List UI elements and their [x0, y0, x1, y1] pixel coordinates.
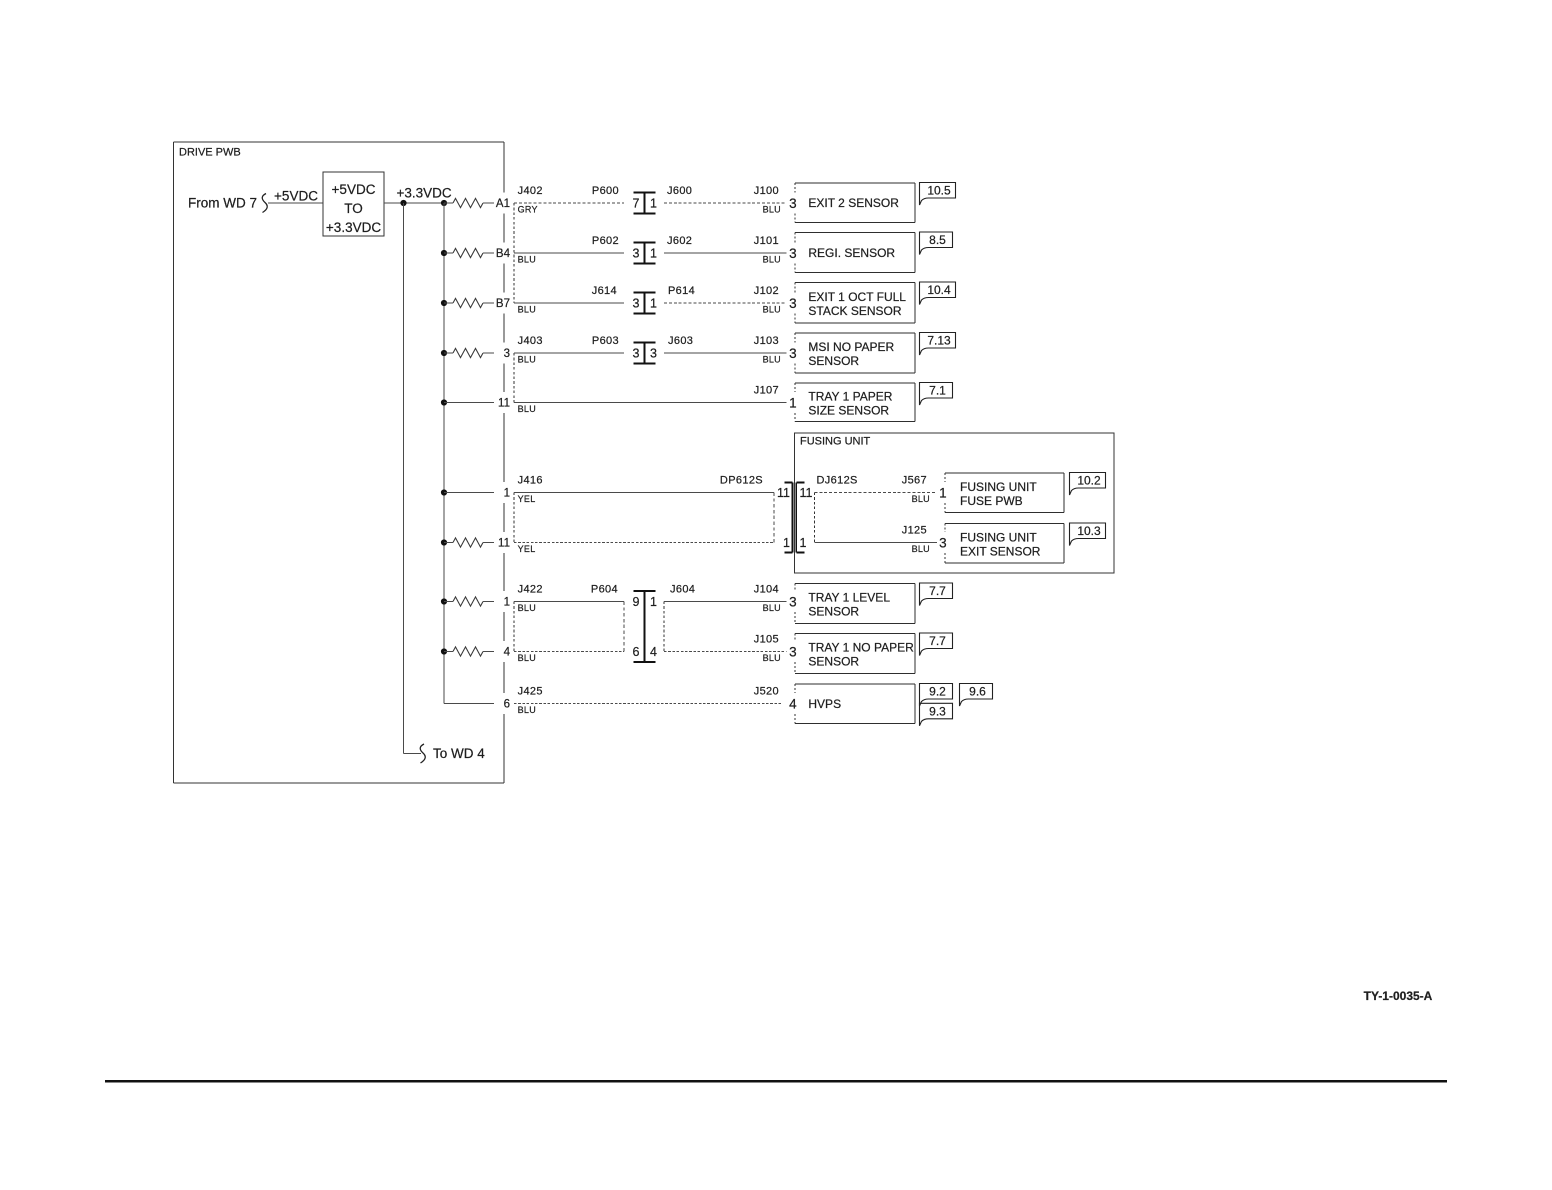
wire color BLU row 4 — [518, 355, 536, 365]
wire color BLU row 9 — [763, 653, 781, 663]
connector bracket J402 — [513, 203, 515, 303]
converter U1 +5VDC TO +3.3VDC — [323, 172, 384, 236]
wire J603 to J103 — [664, 352, 787, 354]
flag 7.1 — [920, 383, 953, 406]
svg-text:4: 4 — [650, 645, 657, 659]
connector bracket J416 — [513, 493, 515, 543]
label P614 — [668, 285, 695, 297]
svg-text:3: 3 — [633, 347, 640, 361]
connector bracket J422 — [513, 602, 515, 652]
label J603 — [668, 335, 693, 347]
label J422 — [518, 584, 543, 596]
label J403 — [518, 335, 543, 347]
svg-text:J402: J402 — [518, 185, 543, 197]
wire B4 to P602 — [514, 252, 624, 254]
net label +3.3VDC — [397, 186, 452, 201]
label P602 — [592, 235, 619, 247]
svg-text:11: 11 — [777, 486, 790, 500]
svg-text:B4: B4 — [496, 248, 511, 260]
svg-text:BLU: BLU — [763, 355, 781, 365]
svg-text:J600: J600 — [667, 185, 692, 197]
svg-text:7.7: 7.7 — [929, 584, 946, 598]
svg-text:7.13: 7.13 — [927, 334, 951, 348]
+3.3VDC bus vertical — [443, 203, 445, 704]
wire color BLU row 9 — [518, 653, 536, 663]
svg-text:FUSING UNIT: FUSING UNIT — [960, 480, 1037, 494]
svg-text:SENSOR: SENSOR — [808, 354, 859, 368]
label J107 — [754, 385, 779, 397]
wire color BLU row 1 — [763, 205, 781, 215]
wire color BLU row 8 — [763, 603, 781, 613]
flag 10.2 — [1070, 473, 1106, 496]
connector P/J mate row 3 — [633, 293, 657, 314]
svg-text:J425: J425 — [518, 686, 543, 698]
svg-text:3: 3 — [633, 247, 640, 261]
pin 1 row 6 — [504, 488, 510, 500]
component MSI NO PAPER SENSOR — [789, 333, 915, 373]
resistor row 2 — [444, 248, 494, 257]
svg-text:SENSOR: SENSOR — [808, 655, 859, 669]
label J105 — [754, 634, 779, 646]
resistor row 4 — [444, 348, 494, 357]
svg-text:YEL: YEL — [518, 544, 536, 554]
svg-text:BLU: BLU — [518, 705, 536, 715]
FUSING UNIT enclosure — [795, 433, 1115, 573]
label DP612S — [720, 475, 763, 487]
svg-text:FUSE PWB: FUSE PWB — [960, 494, 1023, 508]
svg-text:4: 4 — [504, 647, 511, 659]
resistor row 7 — [444, 538, 494, 547]
label J600 — [667, 185, 692, 197]
svg-text:EXIT 1 OCT FULL: EXIT 1 OCT FULL — [808, 290, 906, 304]
svg-text:BLU: BLU — [763, 255, 781, 265]
wire color BLU row 5 — [518, 404, 536, 414]
resistor row 8 — [444, 597, 494, 606]
svg-text:3: 3 — [789, 296, 797, 311]
pin 1 DJ612S — [800, 536, 807, 550]
svg-text:10.2: 10.2 — [1077, 474, 1101, 488]
svg-text:J100: J100 — [754, 185, 779, 197]
footer rule — [105, 1080, 1447, 1082]
svg-text:J103: J103 — [754, 335, 779, 347]
svg-text:1: 1 — [783, 536, 790, 550]
label FUSING UNIT — [800, 436, 871, 448]
component HVPS — [789, 684, 915, 724]
svg-text:+5VDC: +5VDC — [332, 182, 376, 197]
pin A1 row 1 — [496, 198, 510, 210]
wire J402-A1 to P600 (GRY, dashed) — [514, 202, 624, 204]
label P604 — [591, 584, 618, 596]
svg-text:1: 1 — [650, 247, 657, 261]
connector P/J mate row 2 — [633, 243, 657, 264]
node To WD 4 — [420, 744, 485, 763]
svg-text:SENSOR: SENSOR — [808, 605, 859, 619]
svg-text:+5VDC: +5VDC — [274, 189, 318, 204]
connector DP612S/DJ612S mate — [784, 483, 804, 553]
svg-text:BLU: BLU — [518, 603, 536, 613]
connector bracket J403 — [513, 353, 515, 403]
junction bus row 9 — [441, 648, 447, 654]
net label +5VDC — [274, 189, 318, 204]
svg-text:BLU: BLU — [912, 494, 930, 504]
label J614 — [592, 285, 617, 297]
svg-text:9.3: 9.3 — [929, 704, 946, 718]
svg-text:3: 3 — [633, 297, 640, 311]
flag 9.2 — [920, 684, 953, 707]
label J103 — [754, 335, 779, 347]
svg-text:YEL: YEL — [518, 494, 536, 504]
label J520 — [754, 686, 779, 698]
svg-text:8.5: 8.5 — [929, 233, 946, 247]
wire color BLU row 2 — [518, 255, 536, 265]
wire color GRY row 1 — [518, 205, 538, 215]
svg-text:3: 3 — [789, 346, 797, 361]
component FUSING UNIT FUSE PWB — [939, 473, 1064, 513]
pin 11 row 7 — [498, 538, 510, 550]
junction bus row 3 — [441, 300, 447, 306]
label J425 — [518, 686, 543, 698]
svg-text:J403: J403 — [518, 335, 543, 347]
svg-text:STACK SENSOR: STACK SENSOR — [808, 304, 901, 318]
svg-text:11: 11 — [800, 486, 813, 500]
svg-text:A1: A1 — [496, 198, 510, 210]
svg-text:BLU: BLU — [518, 305, 536, 315]
svg-text:To WD 4: To WD 4 — [433, 746, 485, 761]
wire color YEL row 6 — [518, 494, 536, 504]
label J104 — [754, 584, 779, 596]
svg-text:DP612S: DP612S — [720, 475, 763, 487]
flag 9.3 — [920, 703, 953, 726]
svg-text:P604: P604 — [591, 584, 618, 596]
svg-text:BLU: BLU — [763, 653, 781, 663]
DRIVE PWB board outline — [174, 142, 505, 783]
svg-text:P603: P603 — [592, 335, 619, 347]
svg-text:9.6: 9.6 — [969, 685, 986, 699]
component TRAY 1 LEVEL SENSOR — [789, 584, 915, 624]
svg-text:BLU: BLU — [763, 205, 781, 215]
component EXIT 1 OCT FULL STACK SENSOR — [789, 283, 915, 324]
wire converter output to bus — [384, 202, 453, 204]
svg-text:7: 7 — [633, 197, 640, 211]
label J567 — [902, 475, 927, 487]
svg-text:TRAY 1 LEVEL: TRAY 1 LEVEL — [808, 591, 890, 605]
svg-text:11: 11 — [498, 538, 510, 550]
drawing number TY-1-0035-A — [1364, 989, 1433, 1003]
flag 10.4 — [920, 282, 956, 305]
flag 8.5 — [920, 232, 953, 255]
pin 1 DP612S — [783, 536, 790, 550]
svg-text:REGI. SENSOR: REGI. SENSOR — [808, 246, 895, 260]
pin B7 row 3 — [496, 298, 510, 310]
svg-text:DRIVE PWB: DRIVE PWB — [179, 147, 241, 159]
svg-text:P614: P614 — [668, 285, 695, 297]
svg-text:J101: J101 — [754, 235, 779, 247]
component REGI. SENSOR — [789, 233, 915, 273]
label DRIVE PWB — [179, 147, 241, 159]
svg-text:3: 3 — [789, 594, 797, 609]
svg-text:1: 1 — [504, 597, 510, 609]
wire +5VDC input — [268, 202, 323, 204]
pin 11 DJ612S — [800, 486, 813, 500]
wire color YEL row 7 — [518, 544, 536, 554]
svg-text:1: 1 — [650, 197, 657, 211]
wire J604-1 to J104 — [664, 601, 787, 603]
svg-text:J602: J602 — [667, 235, 692, 247]
svg-text:P600: P600 — [592, 185, 619, 197]
wire DJ612S-11 to J567 (dashed) — [814, 492, 937, 494]
svg-text:+3.3VDC: +3.3VDC — [397, 186, 452, 201]
label J102 — [754, 285, 779, 297]
svg-text:EXIT SENSOR: EXIT SENSOR — [960, 544, 1041, 558]
wire color BLU row 2 — [763, 255, 781, 265]
svg-text:BLU: BLU — [763, 603, 781, 613]
label J604 — [670, 584, 695, 596]
svg-text:10.4: 10.4 — [927, 283, 951, 297]
flag 7.7 — [920, 633, 953, 656]
svg-text:11: 11 — [498, 398, 510, 410]
flag 10.5 — [920, 183, 956, 206]
svg-text:7.7: 7.7 — [929, 634, 946, 648]
label J402 — [518, 185, 543, 197]
label P600 — [592, 185, 619, 197]
svg-text:P602: P602 — [592, 235, 619, 247]
svg-text:TRAY 1 PAPER: TRAY 1 PAPER — [808, 389, 892, 403]
wire bus elbow to pin 6 — [444, 703, 494, 705]
svg-text:6: 6 — [504, 699, 510, 711]
svg-text:1: 1 — [650, 297, 657, 311]
wire J425-6 to J520 (dashed) — [514, 703, 783, 705]
svg-text:BLU: BLU — [518, 653, 536, 663]
flag 7.13 — [920, 333, 956, 356]
component EXIT 2 SENSOR — [789, 183, 915, 223]
label J416 — [518, 475, 543, 487]
label J101 — [754, 235, 779, 247]
svg-text:3: 3 — [650, 347, 657, 361]
svg-text:3: 3 — [504, 348, 510, 360]
label P603 — [592, 335, 619, 347]
wire bus feed row 5 — [444, 402, 494, 404]
connector P/J mate row 4 — [633, 343, 657, 364]
wire J403-3 to P603 — [514, 352, 624, 354]
svg-text:J105: J105 — [754, 634, 779, 646]
wire J416-1 to DP612S-11 — [514, 492, 774, 494]
flag 10.3 — [1070, 523, 1106, 546]
svg-text:J107: J107 — [754, 385, 779, 397]
svg-text:EXIT 2 SENSOR: EXIT 2 SENSOR — [808, 196, 899, 210]
svg-text:10.5: 10.5 — [927, 184, 951, 198]
svg-text:MSI NO PAPER: MSI NO PAPER — [808, 340, 894, 354]
wire color BLU row 4 — [763, 355, 781, 365]
svg-text:3: 3 — [789, 196, 797, 211]
svg-text:TRAY 1 NO PAPER: TRAY 1 NO PAPER — [808, 641, 914, 655]
svg-text:TY-1-0035-A: TY-1-0035-A — [1364, 989, 1433, 1003]
pin B4 row 2 — [496, 248, 511, 260]
svg-text:9: 9 — [633, 595, 640, 609]
svg-text:B7: B7 — [496, 298, 510, 310]
svg-text:BLU: BLU — [763, 305, 781, 315]
component TRAY 1 NO PAPER SENSOR — [789, 634, 915, 674]
cable J416 harness (dashed) — [514, 493, 774, 543]
label J125 — [902, 525, 927, 537]
svg-text:3: 3 — [789, 644, 797, 659]
svg-text:BLU: BLU — [912, 544, 930, 554]
svg-text:4: 4 — [789, 696, 797, 711]
wire J602 to J101 — [664, 252, 787, 254]
junction bus row 8 — [441, 598, 447, 604]
junction bus row 6 — [441, 489, 447, 495]
svg-text:From WD 7: From WD 7 — [188, 196, 257, 211]
label DJ612S — [817, 475, 858, 487]
pin 4 row 9 — [504, 647, 511, 659]
svg-text:1: 1 — [939, 485, 947, 500]
svg-text:J104: J104 — [754, 584, 779, 596]
component FUSING UNIT EXIT SENSOR — [939, 524, 1064, 564]
connector P/J mate row 1 — [633, 193, 657, 214]
wire to WD 4 vertical — [404, 203, 422, 754]
wire DJ612S-1 to J125 — [814, 542, 937, 544]
wire J600 to J100 (dashed) — [664, 202, 787, 204]
cable J422 harness (dashed) — [514, 602, 624, 652]
wire J604-4 to J105 (dashed) — [664, 651, 787, 653]
svg-text:+3.3VDC: +3.3VDC — [326, 220, 381, 235]
svg-text:TO: TO — [344, 201, 363, 216]
svg-text:1: 1 — [789, 395, 797, 410]
svg-text:3: 3 — [939, 535, 947, 550]
svg-text:10.3: 10.3 — [1077, 524, 1101, 538]
svg-text:J422: J422 — [518, 584, 543, 596]
svg-text:7.1: 7.1 — [929, 384, 946, 398]
flag 9.6 — [960, 684, 993, 707]
wire P614 to J102 (dashed) — [664, 302, 787, 304]
pin 11 DP612S — [777, 486, 790, 500]
svg-text:1: 1 — [800, 536, 807, 550]
svg-text:3: 3 — [789, 246, 797, 261]
svg-text:HVPS: HVPS — [808, 697, 841, 711]
svg-text:BLU: BLU — [518, 404, 536, 414]
svg-text:BLU: BLU — [518, 355, 536, 365]
wire color BLU row 8 — [518, 603, 536, 613]
svg-text:FUSING UNIT: FUSING UNIT — [800, 436, 871, 448]
wire bus feed row 6 — [444, 492, 494, 494]
wire color BLU row 3 — [763, 305, 781, 315]
svg-text:DJ612S: DJ612S — [817, 475, 858, 487]
svg-text:BLU: BLU — [518, 255, 536, 265]
svg-text:J603: J603 — [668, 335, 693, 347]
wire J422-1 to P604-9 — [514, 601, 624, 603]
pin 11 row 5 — [498, 398, 510, 410]
connector P604/J604 mate — [633, 591, 657, 662]
svg-text:6: 6 — [633, 645, 640, 659]
pin 6 row 10 — [504, 699, 510, 711]
pin 1 row 8 — [504, 597, 510, 609]
junction bus row 4 — [441, 350, 447, 356]
svg-text:9.2: 9.2 — [929, 685, 946, 699]
label J602 — [667, 235, 692, 247]
resistor row 1 — [444, 198, 494, 207]
wire color BLU row 3 — [518, 305, 536, 315]
wire B7 to J614 — [514, 302, 624, 304]
svg-text:SIZE SENSOR: SIZE SENSOR — [808, 403, 889, 417]
label J100 — [754, 185, 779, 197]
svg-text:J520: J520 — [754, 686, 779, 698]
svg-text:1: 1 — [504, 488, 510, 500]
junction bus row 5 — [441, 399, 447, 405]
wire color BLU row 10 — [518, 705, 536, 715]
svg-text:J102: J102 — [754, 285, 779, 297]
svg-text:J567: J567 — [902, 475, 927, 487]
component TRAY 1 PAPER SIZE SENSOR — [789, 383, 915, 422]
svg-text:GRY: GRY — [518, 205, 538, 215]
resistor row 9 — [444, 647, 494, 656]
junction at WD4 drop — [400, 200, 406, 206]
wire J403-11 to J107 — [514, 402, 787, 404]
svg-text:1: 1 — [650, 595, 657, 609]
svg-text:J604: J604 — [670, 584, 695, 596]
flag 7.7 — [920, 583, 953, 606]
svg-text:J125: J125 — [902, 525, 927, 537]
connector bracket J604 — [663, 602, 665, 652]
node From WD 7 — [188, 194, 267, 213]
svg-text:FUSING UNIT: FUSING UNIT — [960, 530, 1037, 544]
resistor row 3 — [444, 298, 494, 307]
wire color BLU row 7 right — [912, 544, 930, 554]
svg-text:J416: J416 — [518, 475, 543, 487]
svg-text:J614: J614 — [592, 285, 617, 297]
pin 3 row 4 — [504, 348, 510, 360]
wire color BLU row 6 right — [912, 494, 930, 504]
junction bus row 2 — [441, 250, 447, 256]
connector bracket DJ612S — [813, 493, 815, 543]
junction at 3.3V bus top — [441, 200, 447, 206]
junction bus row 7 — [441, 539, 447, 545]
